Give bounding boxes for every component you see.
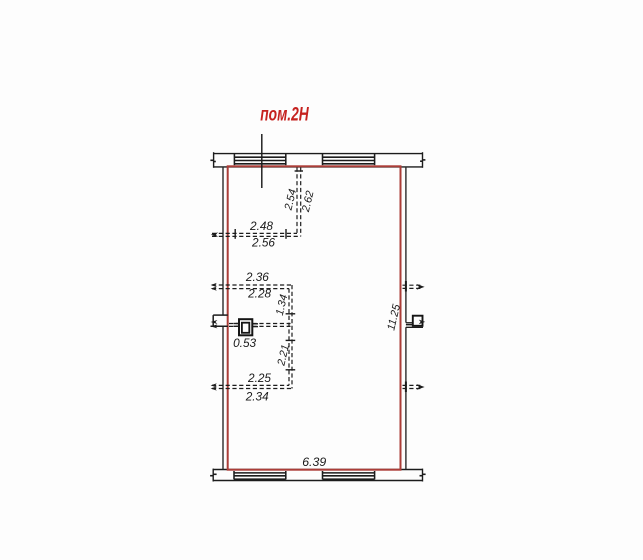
svg-text:2.48: 2.48 (249, 219, 273, 233)
vertical dashed pair right of column (289, 285, 292, 389)
chain C column wing stubs (234, 324, 259, 327)
chain B left arrow (211, 283, 217, 287)
room label leader line (261, 134, 263, 188)
right wall stub at chain D level (403, 385, 422, 388)
top wall band (214, 152, 423, 168)
chain A left arrow (211, 232, 218, 237)
dimension chain B horizontal dashed lines (212, 285, 292, 289)
window W2 top (323, 154, 375, 166)
room outline red (228, 166, 401, 469)
right pilaster (413, 316, 423, 326)
svg-text:2.36: 2.36 (245, 270, 269, 284)
left pilaster (211, 315, 228, 326)
bottom wall band (213, 469, 423, 482)
top wall end ticks (210, 160, 425, 162)
chain D left arrow (211, 383, 217, 387)
svg-text:2.25: 2.25 (247, 371, 271, 385)
window W1 top (234, 154, 285, 166)
dimension chain C dashed lines through column (229, 324, 291, 327)
svg-text:2.56: 2.56 (251, 235, 275, 249)
chain A ticks (235, 171, 303, 239)
window W3 bottom (234, 471, 286, 479)
svg-text:2.28: 2.28 (247, 287, 271, 301)
bottom wall end ticks (210, 474, 426, 475)
left wall outer line (222, 167, 224, 316)
column inner square (242, 323, 249, 333)
right pilaster arrow (419, 320, 425, 325)
svg-text:2.34: 2.34 (245, 390, 269, 404)
column outer square (239, 319, 252, 335)
dimension chain A vertical dashed lines (297, 168, 301, 237)
window W4 bottom (323, 471, 375, 479)
svg-text:пом.2Н: пом.2Н (260, 105, 309, 126)
dimension chain A horizontal dashed lines (212, 233, 301, 236)
svg-text:6.39: 6.39 (302, 455, 326, 469)
left pilaster arrows (211, 320, 218, 324)
vertical pair crossbar ticks (286, 314, 296, 370)
dimension chain D horizontal dashed lines (212, 385, 292, 388)
svg-text:0.53: 0.53 (233, 336, 256, 350)
right wall stub at chain B level (403, 285, 422, 288)
right wall outer line (405, 167, 407, 323)
